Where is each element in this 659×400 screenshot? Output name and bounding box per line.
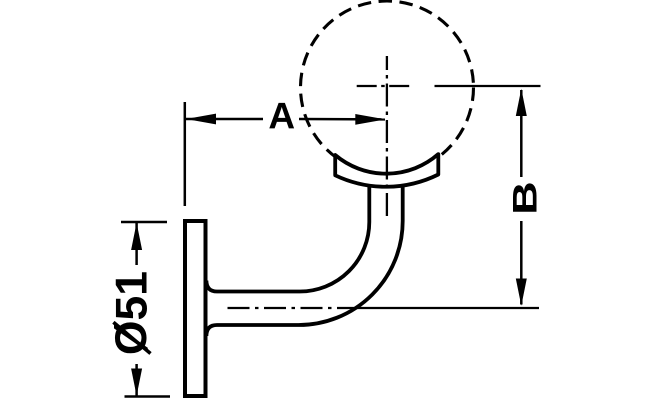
dimension A line left part bbox=[186, 118, 263, 121]
arrow A left bbox=[186, 114, 216, 125]
arrow B bottom bbox=[516, 279, 527, 306]
handrail tube (dashed circle) bbox=[301, 1, 474, 174]
dimension B line upper part bbox=[520, 90, 523, 177]
bracket arm (bent tube) bbox=[206, 185, 402, 337]
saddle plate under tube bbox=[335, 154, 438, 187]
extension line to B (bottom) bbox=[352, 307, 539, 309]
vertical centerline of tube stem bbox=[386, 56, 388, 218]
diameter dimension top tick bbox=[121, 221, 167, 224]
arrow diameter bottom bbox=[131, 369, 142, 396]
diameter dimension bottom tick bbox=[125, 395, 171, 398]
arrow A right bbox=[355, 114, 385, 125]
diameter symbol slash extension bbox=[113, 322, 150, 353]
horizontal centerline of circle bbox=[357, 85, 412, 87]
dimension A extension line (wall plane) bbox=[184, 102, 187, 206]
arrow B top bbox=[516, 89, 527, 116]
svg-text:Ø51: Ø51 bbox=[108, 271, 157, 355]
dimension B line lower part bbox=[520, 221, 523, 305]
arrow diameter top bbox=[131, 223, 142, 250]
wall flange plate bbox=[185, 221, 206, 396]
dimension A line right part bbox=[299, 118, 385, 121]
extension line to B (top) bbox=[435, 85, 541, 87]
diameter dimension line lower part bbox=[135, 364, 138, 396]
horizontal centerline of arm bbox=[228, 307, 353, 309]
svg-text:B: B bbox=[505, 181, 544, 215]
diameter dimension line upper part bbox=[135, 223, 138, 265]
svg-text:A: A bbox=[268, 95, 295, 136]
